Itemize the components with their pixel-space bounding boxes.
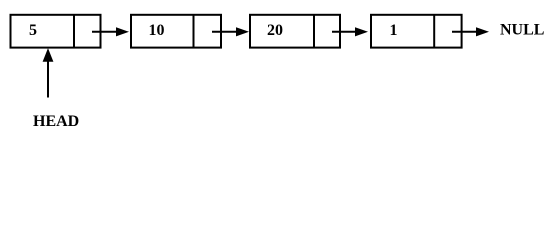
node N1 divider: [73, 15, 75, 48]
node N4 value 1: [390, 22, 398, 39]
svg-text:HEAD: HEAD: [33, 113, 79, 130]
node N4 box: [371, 15, 462, 48]
wire arrow N4 to NULL: [452, 27, 489, 36]
node N2 divider: [193, 15, 195, 48]
wire arrow N3 to N4: [332, 27, 368, 36]
node N3 box: [250, 15, 340, 48]
wire arrow N1 to N2: [92, 27, 129, 36]
svg-text:1: 1: [390, 22, 398, 39]
wire arrow HEAD up to N1: [43, 48, 54, 97]
svg-text:20: 20: [267, 22, 283, 39]
node N3 value 20: [267, 22, 283, 39]
svg-text:NULL: NULL: [500, 22, 544, 39]
svg-text:10: 10: [149, 22, 165, 39]
wire arrow N2 to N3: [212, 27, 249, 36]
label HEAD: [33, 113, 79, 130]
svg-text:5: 5: [29, 22, 37, 39]
label NULL: [500, 22, 544, 39]
node N2 value 10: [149, 22, 165, 39]
node N4 divider: [433, 15, 435, 48]
node N1 box: [11, 15, 101, 48]
node N3 divider: [313, 15, 315, 48]
node N2 box: [131, 15, 221, 48]
node N1 value 5: [29, 22, 37, 39]
